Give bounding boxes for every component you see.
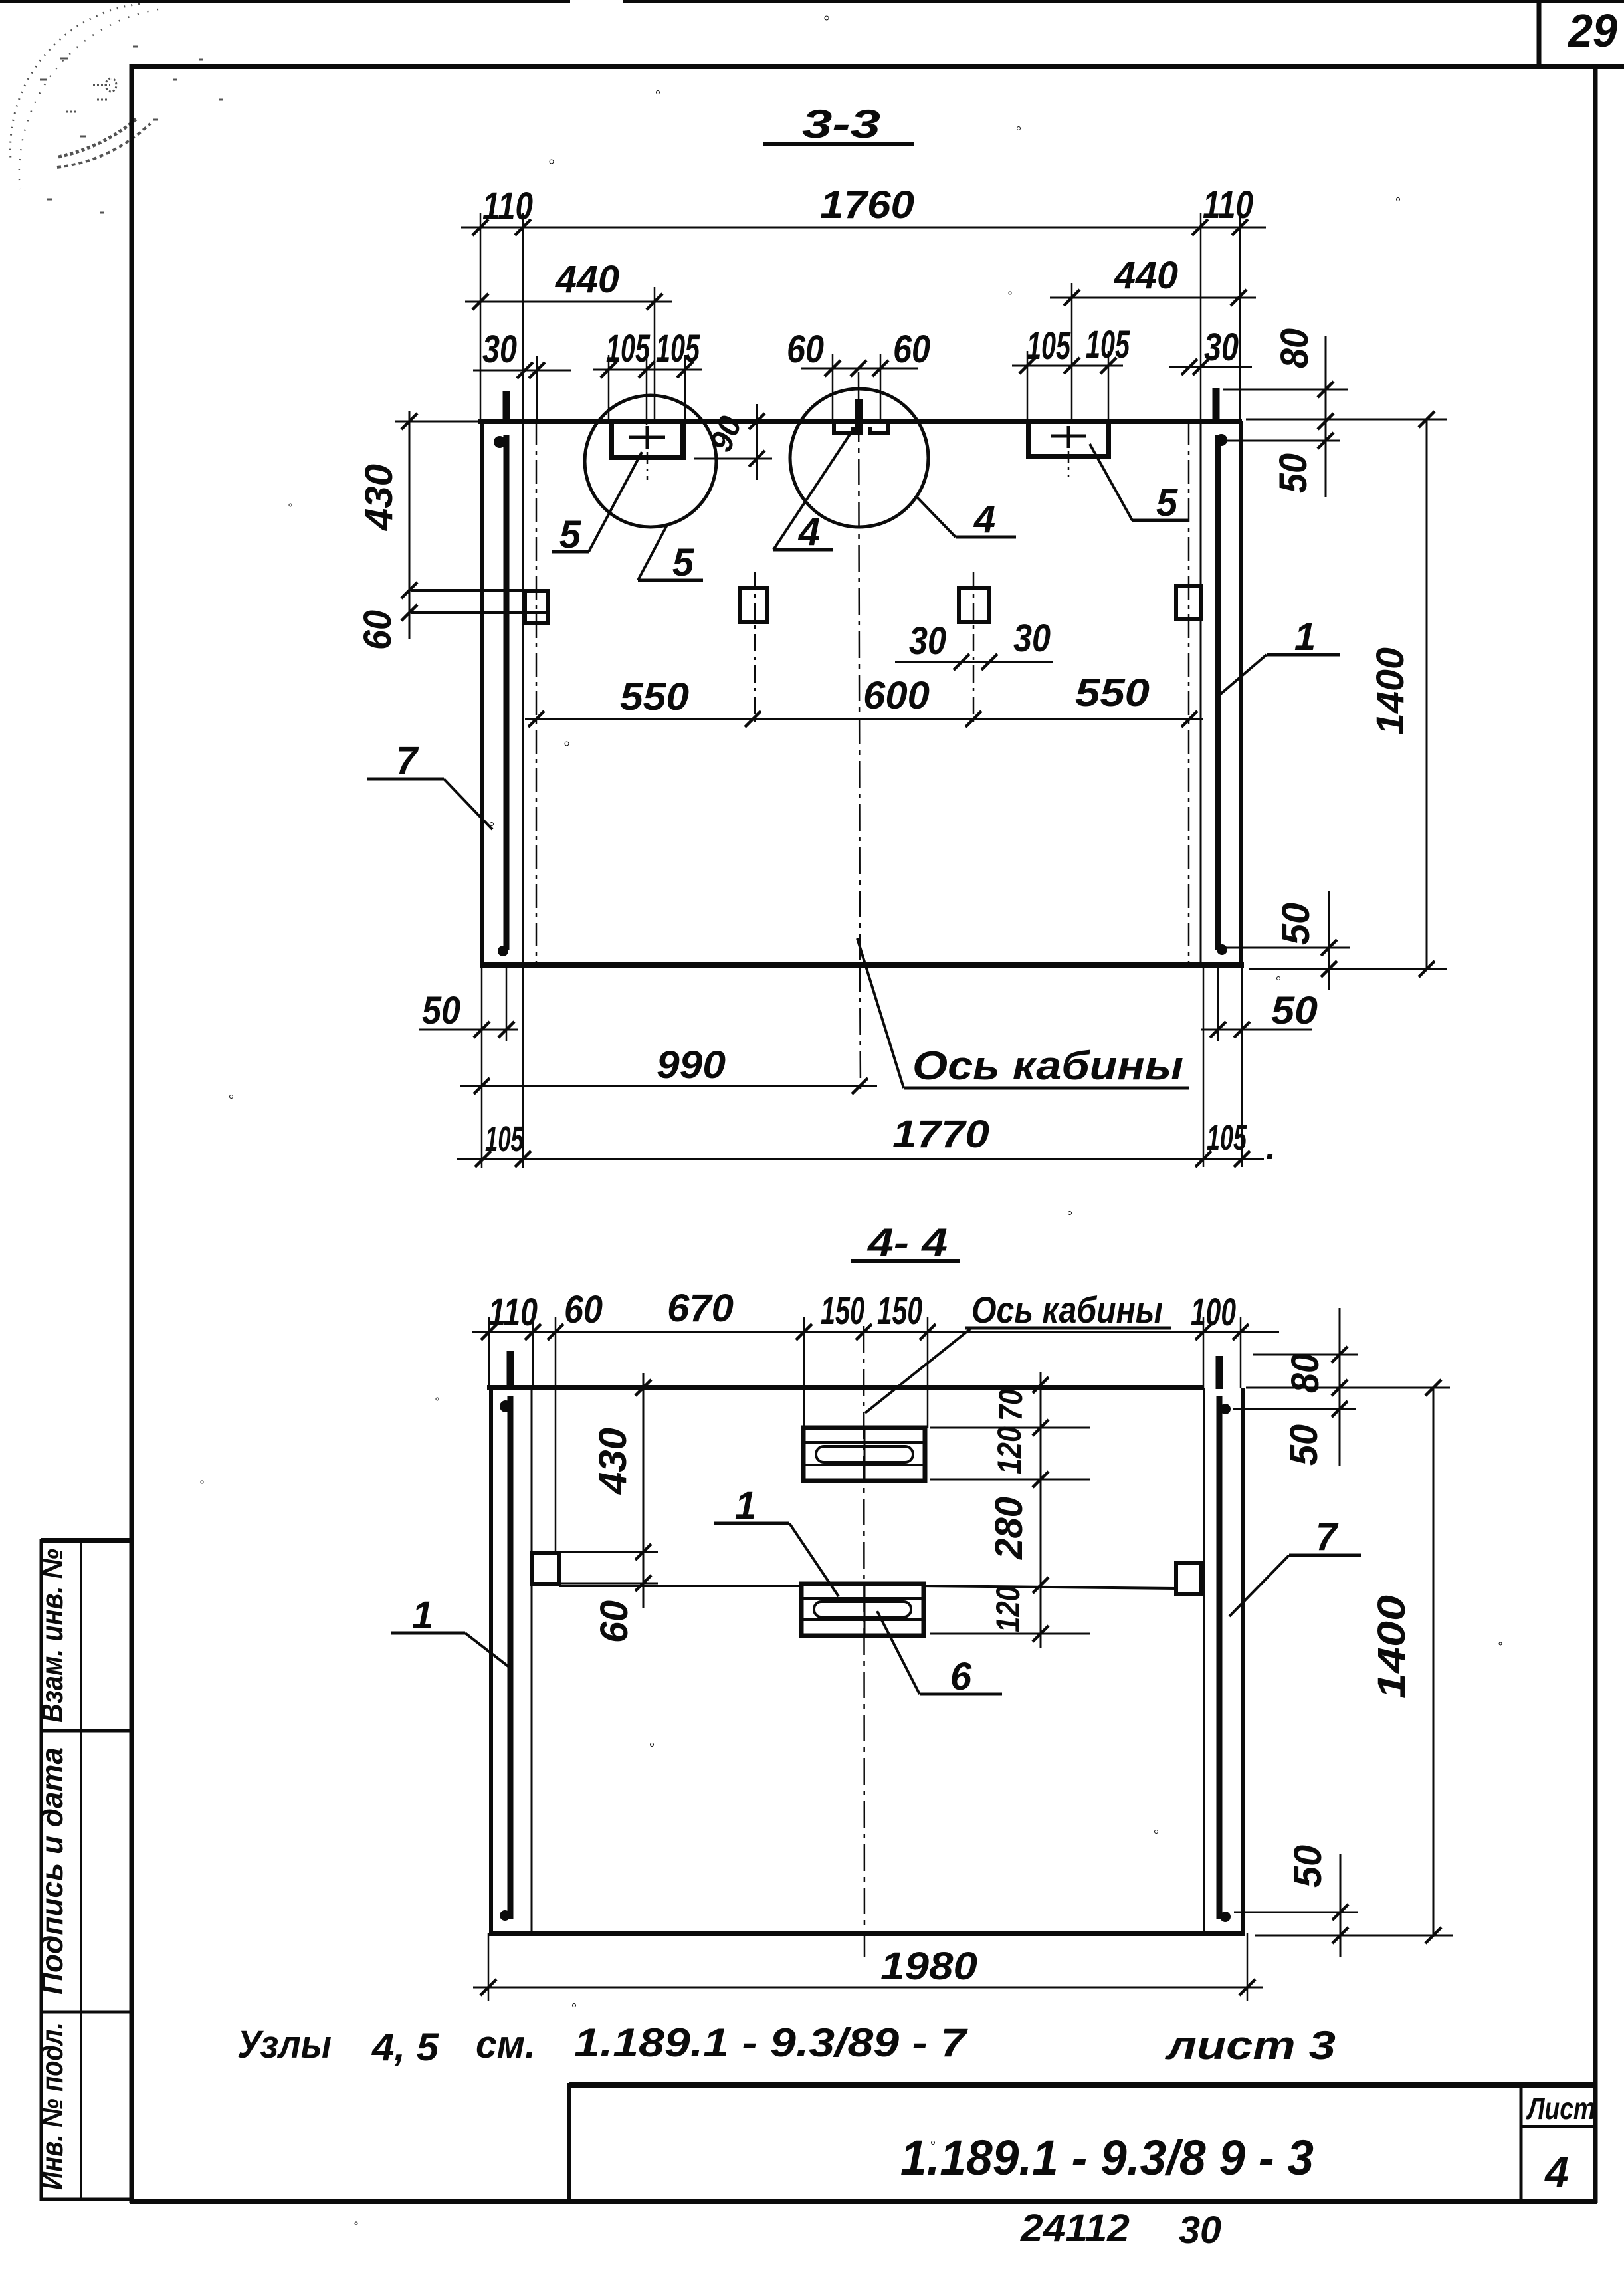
svg-text:Взам. инв. №: Взам. инв. № (35, 1549, 69, 1723)
svg-text:1400: 1400 (1369, 647, 1412, 735)
svg-text:Инв. № подл.: Инв. № подл. (35, 2022, 69, 2190)
detail circle 4 (790, 389, 928, 527)
svg-text:105: 105 (606, 327, 650, 370)
svg-text:120: 120 (991, 1426, 1028, 1474)
svg-text:4: 4 (1544, 2148, 1569, 2196)
svg-text:1.189.1 - 9.3/8 9 - 3: 1.189.1 - 9.3/8 9 - 3 (900, 2130, 1314, 2185)
svg-text:Лист: Лист (1526, 2091, 1595, 2126)
svg-text:1760: 1760 (820, 183, 914, 227)
svg-text:1980: 1980 (880, 1945, 977, 1988)
left wall stud bar (508, 1396, 514, 1919)
svg-text:50: 50 (1271, 989, 1318, 1032)
cabin bottom line (480, 962, 1244, 968)
svg-text:5: 5 (559, 513, 581, 556)
svg-text:30: 30 (1179, 2209, 1221, 2252)
cabin axis dash-dot line (859, 372, 860, 965)
svg-text:5: 5 (1156, 481, 1178, 524)
dim 430 / 60 left (409, 411, 411, 639)
svg-text:30: 30 (1013, 617, 1051, 660)
dim column 70/120/280/120 (1040, 1372, 1042, 1648)
right wall bolt top (1216, 1356, 1223, 1389)
dim 1400 right (1246, 419, 1447, 421)
extension lines top 4-4 (488, 1317, 490, 1388)
dim 550 600 550 (525, 718, 1203, 720)
item label 4 (circle callout) (956, 536, 1016, 539)
svg-text:280: 280 (987, 1497, 1031, 1560)
svg-text:50: 50 (1272, 453, 1315, 493)
dim 80/50 right 4-4 (1253, 1354, 1358, 1356)
svg-text:150: 150 (821, 1289, 864, 1333)
channel item5 right (1029, 423, 1108, 457)
item label 7 (left wall) (367, 778, 444, 781)
bottom line (489, 1931, 1245, 1936)
svg-text:60: 60 (893, 328, 930, 371)
svg-text:110: 110 (488, 1291, 538, 1334)
mounting square on right wall (1176, 586, 1201, 619)
svg-text:600: 600 (863, 674, 930, 717)
left wall inner thin (531, 1388, 533, 1933)
bracket line between squares (559, 1585, 803, 1587)
bottom extension lines (481, 965, 483, 1168)
mounting square left wall 4-4 (532, 1553, 559, 1584)
svg-text:90: 90 (703, 411, 749, 457)
left wall bolt top (507, 1351, 514, 1389)
dim 50 bottom left (419, 1029, 518, 1031)
item label 7 (right wall 4-4) (1289, 1554, 1361, 1557)
drawing frame right (1593, 64, 1598, 2203)
cabin top beam line (478, 419, 1242, 424)
dim 30 30 at square 3 (895, 661, 1053, 663)
dim line 1760 (461, 227, 1266, 229)
right wall inner thin (1203, 1388, 1205, 1933)
svg-text:6: 6 (950, 1655, 972, 1698)
svg-text:110: 110 (482, 185, 533, 228)
svg-text:Ось кабины: Ось кабины (971, 1289, 1163, 1331)
right wall inner thin (1200, 421, 1202, 965)
svg-text:30: 30 (909, 619, 946, 663)
svg-text:50: 50 (1274, 903, 1318, 945)
svg-text:3-3: 3-3 (802, 102, 880, 146)
drawing frame bottom (130, 2199, 1597, 2204)
svg-text:60: 60 (356, 610, 399, 650)
left wall bolt dot bottom (498, 946, 508, 956)
svg-text:30: 30 (482, 328, 517, 371)
channel item5 left (611, 423, 683, 457)
svg-text:550: 550 (620, 675, 689, 718)
svg-text:5: 5 (672, 541, 694, 584)
left wall axis dash-dot (536, 421, 538, 965)
svg-text:105: 105 (656, 327, 700, 370)
right wall outer (1239, 421, 1243, 965)
svg-text:Ось кабины: Ось кабины (912, 1043, 1183, 1088)
dim 105 105 left channel (593, 369, 702, 371)
left wall stud dot top (494, 436, 506, 448)
svg-text:1.189.1 - 9.3/89 - 7: 1.189.1 - 9.3/89 - 7 (574, 2021, 968, 2065)
svg-text:7: 7 (396, 739, 419, 782)
dim 1400 right 4-4 (1433, 1388, 1435, 1935)
svg-text:1400: 1400 (1370, 1595, 1413, 1699)
item label 1 (assembly) (714, 1522, 789, 1525)
left wall stud dot top 4-4 (500, 1400, 512, 1412)
mounting square 3 (959, 588, 989, 622)
right wall outer (1241, 1388, 1245, 1933)
item label 5 (channel left) (552, 550, 589, 554)
dim 50 bottom right (1201, 1029, 1312, 1031)
rail clip left (834, 424, 853, 433)
dim 90 (channel depth) (756, 404, 758, 480)
svg-text:50: 50 (1282, 1424, 1326, 1466)
right wall bolt dot (1220, 1912, 1231, 1922)
svg-text:29: 29 (1567, 5, 1617, 56)
left attribute column (40, 1539, 130, 2201)
svg-text:7: 7 (1316, 1515, 1339, 1559)
left wall stud bar (504, 435, 510, 950)
svg-text:24112: 24112 (1020, 2207, 1130, 2250)
svg-text:100: 100 (1191, 1291, 1236, 1334)
top dim row 110/60/670/150/150/100 (472, 1331, 1279, 1333)
svg-text:4, 5: 4, 5 (371, 2026, 439, 2069)
stamp remnants top-left (10, 4, 223, 213)
svg-text:430: 430 (591, 1428, 635, 1495)
dim 1980 (473, 1987, 1263, 1989)
svg-text:Подпись и дата: Подпись и дата (35, 1747, 69, 1995)
right wall axis dash-dot (1188, 421, 1190, 965)
item label 5 (circle callout) (638, 579, 703, 582)
dim 50 bottom right 4-4 (1234, 1912, 1358, 1913)
scan specks (201, 16, 1502, 2225)
left wall outer (489, 1388, 493, 1933)
svg-text:.: . (1266, 1127, 1276, 1167)
label Ось кабины (904, 1087, 1189, 1090)
svg-text:60: 60 (564, 1288, 603, 1331)
left wall outer (480, 421, 484, 965)
bracket band left (411, 589, 549, 592)
svg-text:440: 440 (555, 258, 619, 301)
dim 430 / 60 (4-4) (643, 1373, 645, 1608)
svg-text:60: 60 (593, 1600, 636, 1643)
item label 5 (channel right) (1132, 519, 1189, 522)
mounting square on left wall (525, 591, 548, 623)
right wall bolt dot bottom (1217, 944, 1227, 955)
svg-text:430: 430 (357, 464, 401, 531)
svg-text:150: 150 (877, 1289, 922, 1333)
bottom extensions 4-4 (488, 1933, 490, 2001)
svg-text:990: 990 (657, 1043, 726, 1087)
mounting square right wall 4-4 (1176, 1563, 1201, 1594)
svg-text:670: 670 (667, 1287, 734, 1330)
svg-text:440: 440 (1114, 254, 1178, 297)
svg-text:см.: см. (476, 2023, 536, 2066)
svg-text:105: 105 (1027, 324, 1070, 368)
cabin axis 4-4 (864, 1326, 864, 1957)
extension lines top (480, 213, 482, 421)
svg-text:Узлы: Узлы (237, 2023, 332, 2066)
extension of top line to right dims (1246, 1387, 1450, 1389)
sheet number box line (1537, 0, 1542, 66)
page top scan edge (0, 0, 570, 3)
svg-text:60: 60 (787, 328, 824, 371)
dot below right bolt (1220, 1404, 1231, 1414)
mounting square 2 (740, 588, 767, 622)
svg-text:4- 4: 4- 4 (867, 1220, 948, 1265)
dim 990 (460, 1085, 877, 1087)
svg-text:4: 4 (973, 498, 995, 541)
svg-text:4: 4 (798, 510, 820, 554)
dim 50 bottom right (1225, 947, 1350, 949)
svg-text:105: 105 (485, 1119, 524, 1159)
drawing frame top (130, 64, 1624, 69)
svg-text:30: 30 (1204, 326, 1239, 369)
svg-text:110: 110 (1203, 183, 1253, 227)
svg-text:1: 1 (735, 1484, 756, 1527)
right wall stud bar (1217, 1396, 1223, 1919)
right wall stud dot top (1215, 434, 1227, 446)
svg-text:1: 1 (1294, 615, 1316, 659)
rail clip right (870, 424, 888, 433)
drawing frame left (130, 64, 134, 2203)
svg-text:550: 550 (1075, 671, 1150, 714)
right wall bolt top (1213, 388, 1220, 423)
rail assembly A2 (801, 1584, 924, 1636)
svg-text:1: 1 (412, 1594, 433, 1637)
svg-text:120: 120 (989, 1586, 1027, 1632)
svg-text:80: 80 (1273, 328, 1316, 368)
left wall inner thin (522, 421, 524, 965)
right wall stud bar (1215, 435, 1221, 950)
dim 105 1770 105 (457, 1158, 1264, 1160)
svg-text:лист 3: лист 3 (1164, 2023, 1336, 2068)
title block (569, 2083, 1597, 2201)
detail circle 5 (585, 395, 716, 527)
svg-text:1770: 1770 (892, 1113, 989, 1156)
left wall bolt dot (500, 1910, 510, 1921)
top beam line (487, 1385, 1204, 1390)
svg-text:105: 105 (1207, 1118, 1247, 1158)
svg-text:50: 50 (422, 989, 460, 1032)
svg-text:70: 70 (992, 1389, 1029, 1421)
svg-text:50: 50 (1286, 1845, 1330, 1888)
rail assembly A1 (803, 1428, 925, 1481)
left wall bolt top (503, 391, 510, 423)
item label 6 (slot) (920, 1693, 1002, 1696)
guide rail web bar (855, 399, 863, 435)
item label 4 (rail clip) (773, 548, 833, 552)
item label 1 (right wall) (1267, 653, 1340, 657)
svg-text:80: 80 (1284, 1353, 1327, 1393)
item label 1 (left wall 4-4) (391, 1632, 465, 1635)
